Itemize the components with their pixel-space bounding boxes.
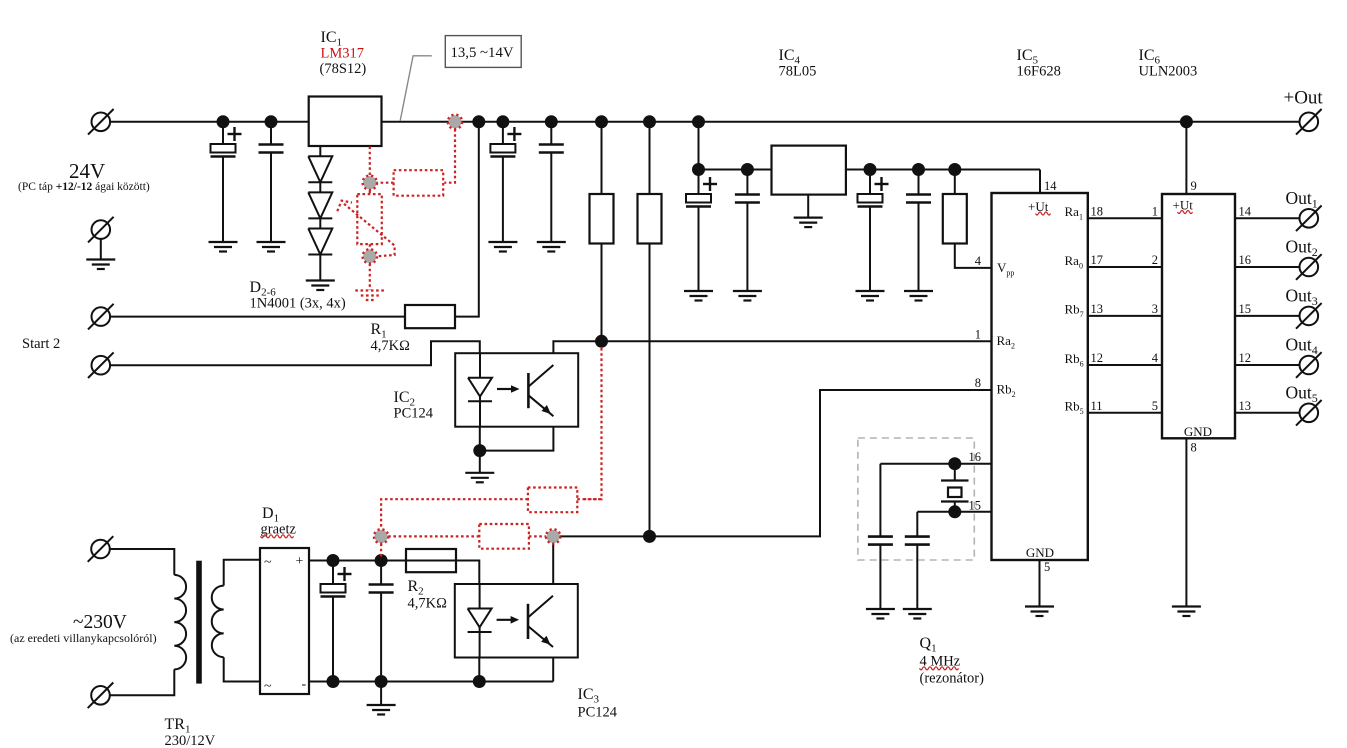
ground IC6 [1172, 607, 1201, 617]
wire IC5 pin15 to resonator [917, 511, 991, 513]
junction resonator top [948, 457, 961, 470]
diode D3 [308, 192, 332, 218]
svg-text:12: 12 [1239, 351, 1252, 365]
svg-text:(rezonátor): (rezonátor) [920, 671, 985, 687]
svg-text:78L05: 78L05 [779, 64, 817, 80]
svg-text:(az eredeti villanykapcsolóról: (az eredeti villanykapcsolóról) [10, 631, 157, 645]
transformer TR1 core [197, 561, 202, 683]
terminal 24V- input [88, 217, 114, 243]
svg-text:13,5 ~14V: 13,5 ~14V [450, 45, 513, 61]
svg-text:13: 13 [1239, 399, 1252, 413]
red node C [363, 249, 377, 263]
wire IC5 pin 18 to IC6 pin 1 [1088, 217, 1162, 219]
resonator Q1 crystal [941, 464, 969, 512]
junction C11 bottom [327, 675, 340, 688]
red node A (IC1 output) [448, 115, 462, 129]
junction C8 [912, 163, 925, 176]
wire IC6 pin 12 to Out4 [1235, 364, 1300, 366]
callout leader line [400, 56, 432, 121]
junction C3 [496, 115, 509, 128]
svg-text:Start 2: Start 2 [22, 336, 60, 352]
ground IC5 [1025, 607, 1054, 617]
red node B (IC1 ADJ) [363, 176, 377, 190]
terminal Start2 b [88, 352, 114, 378]
wire IC5 GND to ground [1039, 560, 1041, 607]
regulator IC4 body [772, 146, 846, 195]
wire IC6 pin 15 to Out3 [1235, 315, 1300, 317]
wire R2 to IC3 LED [456, 561, 479, 585]
optocoupler IC2 phototransistor [528, 365, 553, 416]
wire R1 to top rail [455, 122, 479, 317]
IC5 +Ut label [1028, 199, 1049, 214]
terminal Out3 [1296, 303, 1322, 329]
svg-text:+Out: +Out [1284, 88, 1324, 109]
svg-text:GND: GND [1026, 545, 1054, 560]
resistor R4 (vertical) [638, 122, 662, 530]
resistor R3 (vertical) [590, 122, 614, 335]
svg-text:(PC táp +12/-12 ágai között): (PC táp +12/-12 ágai között) [18, 181, 150, 193]
red node E (IC3 collector) [546, 529, 560, 543]
svg-text:2: 2 [1152, 253, 1158, 267]
svg-text:~230V: ~230V [73, 612, 127, 633]
svg-text:-: - [302, 677, 307, 692]
svg-text:12: 12 [1091, 351, 1104, 365]
driver IC6 body [1162, 194, 1235, 438]
junction IC2 ground [473, 444, 486, 457]
svg-text:8: 8 [1191, 441, 1197, 455]
wire secondary bottom to D1 [224, 657, 260, 681]
Q1 dashed enclosure [858, 438, 974, 560]
ground input [86, 260, 115, 270]
svg-text:16: 16 [1239, 253, 1252, 267]
optocoupler IC3 coupling arrow [497, 616, 519, 624]
wire IC6 GND to ground [1185, 438, 1187, 606]
svg-text:4,7KΩ: 4,7KΩ [408, 596, 448, 612]
capacitor C10 (resonator right) [905, 512, 930, 609]
wire IC1 output [382, 121, 1300, 123]
junction rail to IC4 branch [692, 115, 705, 128]
red resistor (feedback upper) [528, 488, 577, 513]
optocoupler IC3 phototransistor [528, 596, 553, 647]
ground diode stack [306, 281, 335, 291]
transformer TR1 primary winding [174, 575, 186, 669]
wire secondary top to D1 [224, 560, 260, 586]
ground C7 [856, 291, 885, 301]
terminal Out1 [1296, 206, 1322, 232]
terminal Start2 a [88, 304, 114, 330]
junction +Out rail to IC6 [1180, 115, 1193, 128]
terminal Out2 [1296, 254, 1322, 280]
capacitor C7 (electrolytic) [858, 170, 889, 292]
red wire resistor left to node D [381, 499, 528, 529]
svg-text:14: 14 [1239, 204, 1252, 218]
wire rail to IC6 pin 9 [1185, 122, 1187, 194]
svg-text:8: 8 [975, 376, 981, 390]
junction R5 [948, 163, 961, 176]
capacitor C6 [735, 170, 760, 292]
wire IC1 to diode stack [319, 146, 321, 156]
svg-text:13: 13 [1091, 302, 1104, 316]
wire IC3 collector up [552, 543, 554, 584]
wire IC3 collector node to Rb2 path [553, 535, 649, 537]
junction R3 [595, 115, 608, 128]
microcontroller IC5 body [992, 193, 1088, 560]
wire IC5 pin 12 to IC6 pin 4 [1088, 364, 1162, 366]
capacitor C3 (electrolytic) [490, 122, 521, 242]
junction C11 top [327, 554, 340, 567]
junction C12 top [375, 554, 388, 567]
red node D [374, 529, 388, 543]
wire IC6 pin 14 to Out1 [1235, 217, 1300, 219]
junction C2 [265, 115, 278, 128]
svg-text:LM317: LM317 [321, 46, 365, 62]
diode D4 [308, 229, 332, 255]
svg-text:9: 9 [1191, 179, 1197, 193]
wire to ground bottom rail [380, 682, 382, 706]
wire IC5 pin 13 to IC6 pin 3 [1088, 315, 1162, 317]
wire Rb2 path from IC3 collector [650, 390, 992, 536]
svg-text:230/12V: 230/12V [165, 733, 216, 748]
wire terminal to R1 [110, 316, 405, 318]
wire IC2 emitter and LED cathode to ground [480, 427, 554, 451]
red potentiometer body [357, 191, 382, 245]
ground C10 [903, 609, 932, 619]
terminal mains b [88, 683, 114, 709]
wire mains a to primary [110, 549, 174, 575]
optocoupler IC2 coupling arrow [497, 385, 520, 393]
resistor R1 [405, 305, 455, 328]
junction IC4 rail left [692, 163, 705, 176]
wire Ra2 to IC5 pin1 [602, 340, 992, 342]
svg-text:5: 5 [1152, 399, 1158, 413]
red wire node D to resistor [388, 535, 479, 537]
wire diode stack to ground [319, 255, 321, 281]
red wire IC1 ADJ pin [369, 147, 371, 176]
junction C7 [864, 163, 877, 176]
optocoupler IC2 LED [468, 353, 492, 427]
svg-text:4: 4 [1152, 351, 1159, 365]
wire IC2 collector to junction [553, 341, 601, 353]
terminal Out4 [1296, 352, 1322, 378]
junction resonator bottom [948, 505, 961, 518]
optocoupler IC3 body [455, 584, 578, 658]
svg-text:24V: 24V [69, 159, 105, 183]
wire down to IC4 rail [698, 122, 700, 170]
wire primary to mains b [110, 669, 174, 695]
svg-text:PC124: PC124 [394, 406, 434, 422]
svg-text:1N4001 (3x, 4x): 1N4001 (3x, 4x) [250, 296, 346, 312]
red resistor (ADJ divider top) [394, 170, 444, 196]
capacitor C12 [369, 561, 394, 682]
optocoupler IC3 LED [468, 584, 492, 658]
svg-text:16F628: 16F628 [1017, 64, 1061, 80]
wire IC5 pin 17 to IC6 pin 2 [1088, 266, 1162, 268]
svg-text:PC124: PC124 [578, 705, 618, 721]
bridge rectifier D1 body [260, 548, 309, 694]
red potentiometer wiper arrow [337, 201, 394, 257]
junction C6 [741, 163, 754, 176]
capacitor C2 [259, 122, 284, 242]
svg-text:14: 14 [1044, 179, 1057, 193]
svg-text:(78S12): (78S12) [320, 61, 367, 77]
red wire node A to resistor [444, 129, 455, 183]
svg-text:GND: GND [1184, 424, 1212, 439]
wire IC3 emitter and LED cathode to bottom rail [479, 658, 553, 682]
ground C3 [488, 242, 517, 252]
junction C1 [217, 115, 230, 128]
svg-text:11: 11 [1091, 399, 1103, 413]
red wire node D to D1 rail [380, 544, 382, 559]
wire terminal to IC2 LED [110, 341, 480, 365]
ground C8 [904, 291, 933, 301]
wire D1 - output rail [309, 681, 553, 683]
red wire resistor to node B [377, 182, 394, 184]
capacitor C11 (electrolytic) [321, 561, 352, 682]
ground C6 [733, 291, 762, 301]
ground IC4 [794, 218, 823, 228]
ground C1 [209, 242, 238, 252]
red wire resistor right [577, 498, 601, 500]
terminal Out5 [1296, 400, 1322, 426]
wire D1 + output rail [309, 560, 479, 562]
wire R5 to IC5 pin 4 [955, 244, 992, 268]
svg-text:+: + [296, 554, 304, 569]
svg-text:3: 3 [1152, 302, 1158, 316]
wire IC5 pin16 to resonator [880, 463, 991, 465]
svg-text:~: ~ [264, 679, 272, 694]
capacitor C4 [539, 122, 564, 242]
wire IC5 pin 11 to IC6 pin 5 [1088, 412, 1162, 414]
svg-text:18: 18 [1091, 204, 1104, 218]
capacitor C9 (resonator left) [868, 464, 893, 609]
svg-text:15: 15 [1239, 302, 1252, 316]
junction R3 to IC2 collector / Ra2 wire [595, 335, 608, 348]
ground C9 [866, 609, 895, 619]
red wire from Ra2 junction down [584, 348, 602, 499]
wire IC4 input rail [699, 169, 772, 171]
svg-text:5: 5 [1044, 560, 1050, 574]
ground bottom rail [367, 705, 396, 715]
resistor R2 [406, 549, 456, 572]
svg-text:1: 1 [975, 328, 981, 342]
red wire pot to node C [369, 244, 371, 249]
ground C5 [684, 291, 713, 301]
wire IC6 pin 16 to Out2 [1235, 266, 1300, 268]
svg-text:ULN2003: ULN2003 [1139, 64, 1198, 80]
ground C4 [537, 242, 566, 252]
red resistor (feedback lower) [479, 524, 529, 549]
callout box 13,5 ~14V [445, 36, 521, 68]
junction C4 [545, 115, 558, 128]
junction IC3 bottom rail [473, 675, 486, 688]
red wire resistor to node E [529, 535, 546, 537]
svg-text:17: 17 [1091, 253, 1104, 267]
wire top rail left [110, 121, 309, 123]
capacitor C8 [906, 170, 931, 292]
optocoupler IC2 body [455, 353, 578, 427]
capacitor C1 (electrolytic) [211, 122, 242, 242]
wire IC4 output rail [846, 169, 1040, 171]
regulator IC1 body [309, 97, 382, 147]
capacitor C5 (electrolytic) [686, 170, 717, 292]
wire IC4 ground pin [807, 195, 809, 218]
wire terminal to ground [100, 239, 102, 260]
junction R1 rail [472, 115, 485, 128]
transformer TR1 secondary winding [212, 586, 224, 658]
wire IC6 pin 13 to Out5 [1235, 412, 1300, 414]
ground IC2 [465, 473, 494, 483]
D1 terminal marks [264, 554, 307, 694]
svg-text:4: 4 [975, 254, 982, 268]
terminal +Out [1296, 109, 1322, 135]
junction R4 bottom [643, 530, 656, 543]
svg-text:1: 1 [1152, 204, 1158, 218]
terminal mains a [88, 536, 114, 562]
resistor R5 (vertical, MCLR pull-up) [943, 170, 967, 244]
red ground (pot) [355, 291, 384, 301]
wire +Ut to IC5 pin 14 [1039, 170, 1041, 194]
terminal 24V+ input [88, 109, 114, 135]
svg-text:~: ~ [264, 555, 272, 570]
junction R4 [643, 115, 656, 128]
junction C12 bottom [375, 675, 388, 688]
diode D2 [308, 156, 332, 182]
svg-text:4,7KΩ: 4,7KΩ [371, 338, 411, 354]
wire to ground IC2 [479, 457, 481, 473]
ground C2 [257, 242, 286, 252]
red wire node C to ground [369, 264, 371, 291]
